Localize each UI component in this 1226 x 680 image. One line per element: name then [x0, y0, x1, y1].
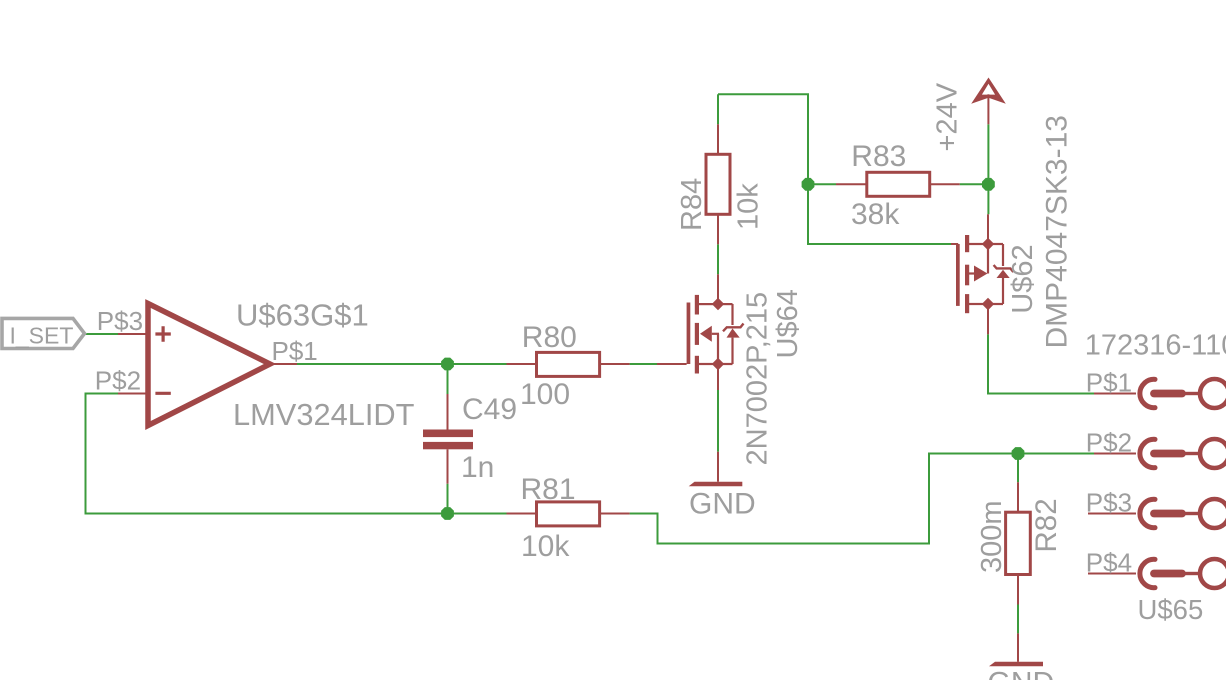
svg-text:C49: C49 — [462, 393, 517, 426]
wire R84 bottom to U$64 drain — [717, 244, 719, 274]
wire R82 bottom to GND — [1017, 605, 1019, 634]
pin conn P$2 — [1094, 453, 1136, 455]
junction node D (+24V / R83 / U$62) — [982, 178, 995, 191]
wire +24V down to node — [987, 124, 989, 184]
svg-text:300m: 300m — [976, 500, 1008, 573]
svg-text:R80: R80 — [522, 321, 577, 354]
capacitor C49 — [423, 393, 517, 484]
ground GND (R82) — [988, 662, 1055, 680]
supply +24V — [932, 78, 1006, 152]
svg-text:U$63G$1: U$63G$1 — [236, 298, 369, 333]
resistor R80 — [520, 321, 600, 411]
wire U$62 source to P$1 — [988, 334, 1094, 393]
transistor U$64 (2N7002P,215) — [687, 295, 744, 374]
pin R82 bottom — [1017, 575, 1019, 605]
pin R84 top — [717, 124, 719, 154]
svg-text:R83: R83 — [851, 140, 906, 173]
wire P$2 node to R82 — [1017, 454, 1019, 483]
junction node E (P$2 / R82) — [1012, 447, 1025, 460]
pin R80 left — [507, 363, 537, 365]
svg-text:100: 100 — [520, 378, 570, 411]
svg-text:2N7002P,215: 2N7002P,215 — [742, 292, 774, 466]
wire R80 to U$64 gate — [630, 363, 657, 365]
svg-text:R82: R82 — [1030, 498, 1063, 552]
svg-text:U$62: U$62 — [1007, 244, 1039, 313]
svg-text:R84: R84 — [676, 178, 708, 231]
resistor R81 — [521, 473, 600, 563]
svg-text:GND: GND — [988, 667, 1055, 680]
resistor R83 — [851, 140, 930, 231]
svg-text:P$1: P$1 — [272, 336, 318, 366]
pin U$64 gnd — [717, 452, 719, 482]
net flag I_SET — [2, 318, 85, 348]
svg-text:I_SET: I_SET — [10, 322, 74, 348]
pin R83 right — [930, 183, 960, 185]
pin opamp out — [270, 363, 297, 365]
conn pin P$3 — [1140, 499, 1226, 528]
pin U$64 source — [717, 364, 719, 390]
svg-text:LMV324LIDT: LMV324LIDT — [233, 397, 415, 432]
pin conn P$4 — [1088, 573, 1136, 575]
svg-text:1n: 1n — [461, 451, 494, 484]
resistor R82 — [976, 498, 1063, 574]
pin U$64 drain — [717, 274, 719, 304]
pin R82 top — [1017, 482, 1019, 512]
svg-text:+24V: +24V — [932, 82, 964, 151]
conn pin P$1 — [1140, 379, 1226, 408]
pin conn P$1 — [1094, 393, 1136, 395]
svg-text:U$65: U$65 — [1138, 594, 1204, 625]
wire R84 top pin net — [717, 94, 719, 124]
svg-text:P$3: P$3 — [1086, 488, 1132, 518]
svg-text:DMP4047SK3-13: DMP4047SK3-13 — [1040, 115, 1073, 348]
wire I_SET to opamp +in — [85, 333, 119, 335]
svg-text:P$2: P$2 — [95, 366, 141, 396]
pin U$62 gate — [951, 243, 958, 245]
pin C49 top — [447, 394, 449, 430]
svg-text:U$64: U$64 — [772, 289, 804, 358]
pin U$62 drain — [987, 214, 989, 244]
pin R80 right — [600, 363, 630, 365]
wire R83 to +24V node — [960, 183, 989, 185]
wire node to U$62 drain — [987, 184, 989, 214]
svg-text:P$3: P$3 — [97, 306, 143, 336]
pin +24V — [987, 94, 989, 124]
wire R81 to P$2 net — [630, 454, 1094, 544]
wire gate net to U$62 — [808, 184, 951, 244]
pin R81 left — [507, 513, 537, 515]
junction node A (opamp out / C49) — [441, 358, 454, 371]
junction node C (R84 / R83 / gate) — [802, 178, 815, 191]
junction node B (C49 bottom / R81) — [441, 507, 454, 520]
conn pin P$4 — [1140, 559, 1226, 588]
connector U$65 — [1085, 330, 1226, 625]
pin R82 gnd — [1017, 633, 1019, 661]
wire U$64 source to GND — [717, 390, 719, 452]
ground GND (U$64) — [689, 482, 756, 521]
pin R84 bottom — [717, 214, 719, 244]
svg-text:P$1: P$1 — [1086, 368, 1132, 398]
svg-text:GND: GND — [689, 488, 756, 521]
wire top R84 to junction — [718, 94, 808, 184]
wire opamp -in feedback — [86, 394, 507, 514]
resistor R84 — [676, 154, 765, 231]
wire C49 top — [447, 364, 449, 394]
wire opamp out to R80 — [297, 363, 507, 365]
svg-text:172316-110: 172316-110 — [1085, 330, 1226, 362]
pin C49 bottom — [447, 449, 449, 483]
pin R83 left — [836, 183, 867, 185]
pin U$64 gate — [657, 363, 687, 365]
svg-text:10k: 10k — [733, 183, 765, 230]
pin opamp -in — [118, 393, 148, 395]
svg-text:P$4: P$4 — [1086, 548, 1132, 578]
svg-text:10k: 10k — [521, 530, 570, 563]
pin opamp +in — [118, 333, 148, 335]
svg-text:38k: 38k — [851, 198, 900, 231]
wire junction to R83 — [808, 183, 836, 185]
svg-text:R81: R81 — [521, 473, 576, 506]
pin conn P$3 — [1088, 513, 1136, 515]
pin U$62 source — [987, 304, 989, 334]
svg-text:P$2: P$2 — [1086, 428, 1132, 458]
pin R81 right — [600, 513, 630, 515]
conn pin P$2 — [1140, 439, 1226, 468]
wire C49 bottom — [447, 484, 449, 514]
op-amp U$63G$1 — [148, 304, 270, 426]
transistor U$62 (DMP4047SK3-13) — [956, 235, 1013, 313]
